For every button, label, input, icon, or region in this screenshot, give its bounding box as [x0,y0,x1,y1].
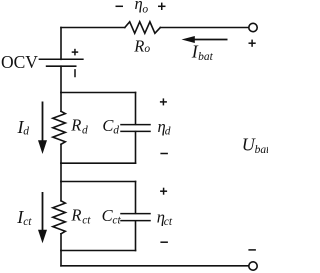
svg-text:o: o [144,43,150,55]
svg-text:R: R [133,36,144,55]
svg-text:o: o [142,3,148,15]
wire top-left horizontal [61,27,125,29]
label plus cap2 [160,188,167,195]
label minus cap1 [160,153,168,155]
wire loop1 left upper stub [60,93,62,112]
resistor R_d zigzag [53,111,66,144]
svg-text:R: R [70,116,81,135]
wire left vertical to battery [60,28,62,60]
label plus terminal top [249,40,256,47]
svg-text:R: R [70,206,81,225]
wire loop2 right lower stub [135,221,137,251]
battery OCV bottom plate [47,65,76,67]
bottom rail wire [61,265,249,267]
bottom line loop1 [61,162,136,164]
wire loop2 left upper stub [60,182,62,201]
capacitor C_d top plate [121,124,150,126]
svg-text:ct: ct [112,214,121,226]
wire loop1 right upper stub [135,93,137,125]
wire loop2 left lower stub [60,234,62,251]
svg-text:OCV: OCV [1,52,38,72]
current arrow I_d [38,102,47,155]
label minus cap2 [160,241,168,243]
battery minus tick [74,70,76,77]
current arrow I_bat [182,36,228,43]
label minus terminal bottom [248,249,256,251]
svg-text:d: d [165,126,171,138]
top line loop2 [61,181,136,183]
terminal circle bottom right [249,262,257,270]
capacitor C_d bottom plate [121,130,150,132]
resistor R_o zigzag [125,22,161,34]
wire loop1 left lower stub [60,144,62,163]
svg-text:d: d [82,125,88,137]
node A top line loop1 [61,92,136,94]
svg-text:ct: ct [164,216,173,228]
battery OCV top plate [39,58,83,60]
capacitor C_ct top plate [121,213,150,215]
label battery plus [72,49,79,56]
current arrow I_ct [38,192,47,243]
bottom line loop2 [61,250,136,252]
svg-text:ct: ct [82,214,91,226]
label minus top [116,5,124,7]
svg-text:bat: bat [255,144,268,156]
label plus top [158,3,166,10]
label plus cap1 [160,98,167,105]
wire loop2 to bottom rail [60,251,62,266]
wire loop2 right upper stub [135,182,137,214]
svg-text:d: d [113,125,119,137]
svg-text:bat: bat [198,51,214,63]
wire loop1 right lower stub [135,132,137,164]
terminal circle top right [249,23,257,31]
wire battery to node A [60,66,62,92]
svg-text:d: d [23,126,29,138]
wire connector loop1 to loop2 [60,163,62,181]
svg-text:ct: ct [23,216,32,228]
wire top-right horizontal [160,27,248,29]
resistor R_ct zigzag [53,201,66,234]
capacitor C_ct bottom plate [121,220,150,222]
